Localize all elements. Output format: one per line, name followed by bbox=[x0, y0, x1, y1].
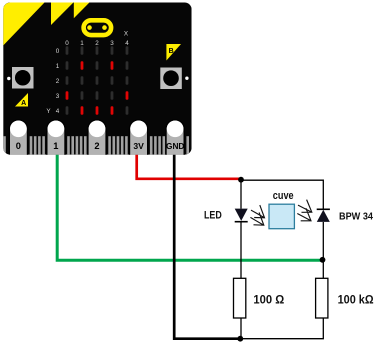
svg-text:GND: GND bbox=[166, 142, 185, 151]
svg-text:LED: LED bbox=[204, 210, 222, 222]
svg-text:1: 1 bbox=[53, 141, 58, 151]
svg-text:2: 2 bbox=[94, 141, 99, 151]
svg-text:0: 0 bbox=[16, 141, 21, 151]
svg-text:2: 2 bbox=[95, 40, 99, 47]
svg-text:100 kΩ: 100 kΩ bbox=[338, 292, 374, 306]
svg-text:4: 4 bbox=[56, 108, 60, 115]
svg-text:0: 0 bbox=[56, 48, 60, 55]
svg-text:1: 1 bbox=[80, 40, 84, 47]
svg-text:BPW 34: BPW 34 bbox=[339, 211, 373, 223]
svg-text:0: 0 bbox=[65, 40, 69, 47]
svg-text:cuve: cuve bbox=[273, 190, 294, 202]
svg-text:3: 3 bbox=[56, 93, 60, 100]
svg-text:3V: 3V bbox=[133, 141, 144, 151]
svg-text:B: B bbox=[169, 48, 174, 55]
svg-text:100 Ω: 100 Ω bbox=[253, 292, 284, 306]
svg-text:A: A bbox=[21, 100, 26, 107]
svg-text:3: 3 bbox=[110, 40, 114, 47]
svg-text:4: 4 bbox=[125, 40, 129, 47]
svg-text:2: 2 bbox=[56, 78, 60, 85]
svg-text:1: 1 bbox=[56, 63, 60, 70]
